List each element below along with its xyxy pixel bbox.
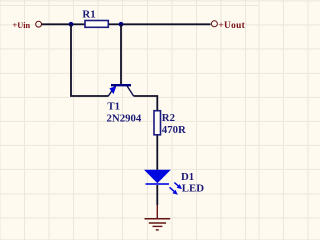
svg-text:D1: D1 — [181, 171, 194, 183]
wire: T1 collector to R2 top — [134, 96, 158, 110]
transistor T1 (PNP 2N2904) — [108, 85, 133, 96]
wire: node A to R1 left lead — [71, 23, 85, 25]
junction node A — [69, 22, 74, 27]
svg-text:R2: R2 — [162, 112, 175, 124]
resistor R1 — [85, 21, 108, 28]
resistor R2 — [154, 111, 161, 135]
wire: node B to +Uout terminal — [121, 23, 211, 25]
terminal +Uin — [36, 21, 42, 27]
svg-text:+Uin: +Uin — [13, 21, 31, 30]
svg-text:T1: T1 — [107, 100, 120, 112]
svg-text:LED: LED — [182, 182, 204, 194]
wire: +Uin terminal to node A — [42, 23, 71, 25]
svg-text:R1: R1 — [82, 9, 95, 21]
ground — [145, 205, 171, 230]
wire: node B down to T1 base — [120, 24, 122, 84]
junction node B — [119, 22, 124, 27]
svg-text:470R: 470R — [162, 124, 186, 136]
wire: D1 cathode to ground — [156, 185, 158, 205]
wire: R2 bottom to D1 anode — [156, 136, 158, 171]
wire: node A down and right to T1 emitter — [71, 24, 109, 96]
wire: R1 right lead to node B — [109, 23, 121, 25]
terminal +Uout — [211, 21, 217, 27]
LED D1 — [144, 170, 182, 195]
svg-text:2N2904: 2N2904 — [107, 113, 142, 125]
svg-text:+Uout: +Uout — [218, 21, 245, 31]
